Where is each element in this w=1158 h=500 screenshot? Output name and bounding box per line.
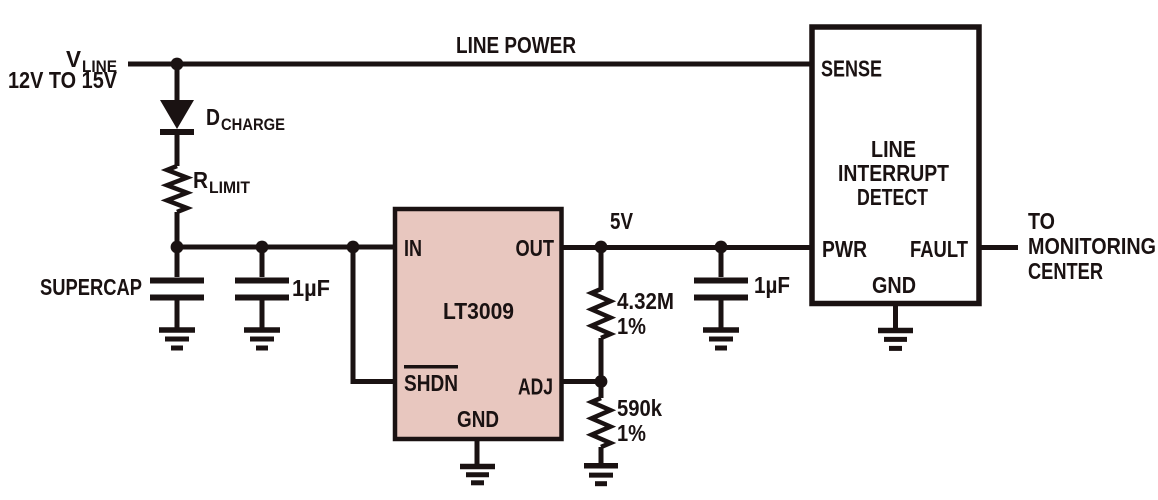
- wire: node E down: [599, 247, 604, 290]
- svg-text:MONITORING: MONITORING: [1028, 233, 1156, 259]
- svg-text:12V TO 15V: 12V TO 15V: [8, 67, 118, 93]
- wire: U2 GND to ground: [893, 301, 898, 329]
- label DCHARGE: [206, 104, 285, 134]
- wire: node A to diode: [175, 64, 180, 102]
- svg-text:SHDN: SHDN: [404, 370, 458, 396]
- svg-text:SENSE: SENSE: [821, 56, 882, 82]
- node G: ADJ: [595, 375, 608, 388]
- wire: resistor to node B: [175, 212, 180, 249]
- wire: node D down to SHDN: [353, 247, 395, 382]
- svg-text:IN: IN: [404, 235, 422, 261]
- svg-text:CHARGE: CHARGE: [221, 115, 285, 134]
- resistor RLIMIT: [167, 166, 187, 212]
- svg-text:LINE: LINE: [871, 136, 916, 162]
- svg-text:1%: 1%: [617, 313, 646, 339]
- svg-text:1µF: 1µF: [754, 272, 790, 298]
- svg-text:TO: TO: [1028, 208, 1055, 234]
- node F: [715, 241, 728, 254]
- pin SHDN with overline: [404, 367, 458, 396]
- svg-text:INTERRUPT: INTERRUPT: [838, 160, 949, 186]
- wire: ADJ pin stub: [561, 379, 601, 384]
- svg-text:1%: 1%: [617, 420, 646, 446]
- capacitor SUPERCAP: [150, 247, 204, 329]
- diode DCHARGE: [160, 100, 194, 132]
- wire: R2 to ground: [599, 447, 604, 463]
- svg-text:LT3009: LT3009: [443, 298, 514, 324]
- label LINE INTERRUPT DETECT: [838, 136, 949, 210]
- svg-text:CENTER: CENTER: [1028, 258, 1103, 284]
- svg-text:1µF: 1µF: [292, 275, 330, 301]
- node C: [256, 241, 269, 254]
- label R2 590k 1%: [617, 395, 662, 446]
- wire: node G down: [599, 382, 604, 399]
- svg-text:D: D: [206, 104, 220, 130]
- svg-text:GND: GND: [457, 406, 499, 432]
- wire: diode to resistor: [175, 132, 180, 166]
- svg-text:SUPERCAP: SUPERCAP: [40, 274, 142, 300]
- wire: FAULT output: [979, 245, 1018, 250]
- capacitor C1 1uF: [235, 247, 289, 329]
- svg-text:ADJ: ADJ: [518, 374, 553, 400]
- ground: supercap: [159, 330, 195, 348]
- resistor R2 590k: [592, 398, 611, 447]
- ground: U2: [878, 331, 913, 349]
- wire: GND pin to ground: [475, 439, 480, 464]
- label RLIMIT: [193, 167, 251, 197]
- svg-text:R: R: [193, 167, 208, 193]
- capacitor C2 1uF: [694, 247, 748, 329]
- svg-text:OUT: OUT: [516, 235, 555, 261]
- svg-text:5V: 5V: [610, 208, 634, 234]
- wire: R1 to ADJ node: [599, 338, 604, 382]
- svg-text:4.32M: 4.32M: [617, 288, 674, 314]
- svg-text:LIMIT: LIMIT: [209, 178, 251, 197]
- svg-text:GND: GND: [872, 272, 916, 298]
- svg-text:DETECT: DETECT: [857, 184, 928, 210]
- node D: [347, 241, 360, 254]
- op-amp U1: LT3009 regulator box: [395, 209, 562, 439]
- op-amp U2: LINE INTERRUPT DETECT box: [812, 27, 979, 304]
- label VLINE: [8, 46, 118, 93]
- node B: [171, 241, 184, 254]
- ground: R2: [584, 466, 618, 484]
- ground: LT3009: [460, 467, 495, 483]
- wire: LINE POWER top rail: [128, 62, 812, 67]
- svg-text:590k: 590k: [617, 395, 662, 421]
- label TO MONITORING CENTER: [1028, 208, 1156, 284]
- wire: node B rail to IN: [177, 245, 395, 250]
- node A: VLINE junction: [171, 58, 184, 71]
- svg-text:FAULT: FAULT: [910, 236, 968, 262]
- label R1 4.32M 1%: [617, 288, 674, 339]
- svg-text:LINE POWER: LINE POWER: [456, 32, 576, 58]
- svg-text:PWR: PWR: [822, 236, 867, 262]
- ground: C2: [703, 330, 739, 348]
- wire: OUT rail to PWR: [561, 245, 812, 250]
- ground: C1: [244, 330, 280, 348]
- resistor R1 4.32M: [592, 289, 611, 338]
- node E: 5V: [595, 241, 608, 254]
